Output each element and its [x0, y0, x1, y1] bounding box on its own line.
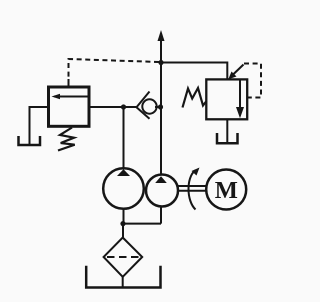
svg-text:M: M: [215, 177, 238, 204]
